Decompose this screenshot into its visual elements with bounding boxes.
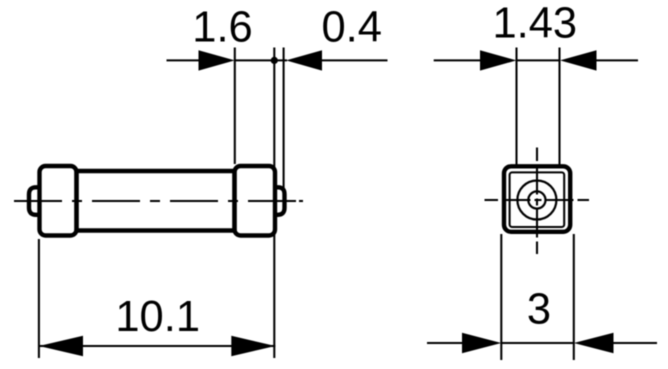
svg-text:10.1: 10.1 [115,293,200,341]
svg-text:0.4: 0.4 [321,3,381,51]
svg-text:1.6: 1.6 [192,3,252,51]
svg-text:3: 3 [527,286,551,334]
svg-text:1.43: 1.43 [492,0,577,48]
